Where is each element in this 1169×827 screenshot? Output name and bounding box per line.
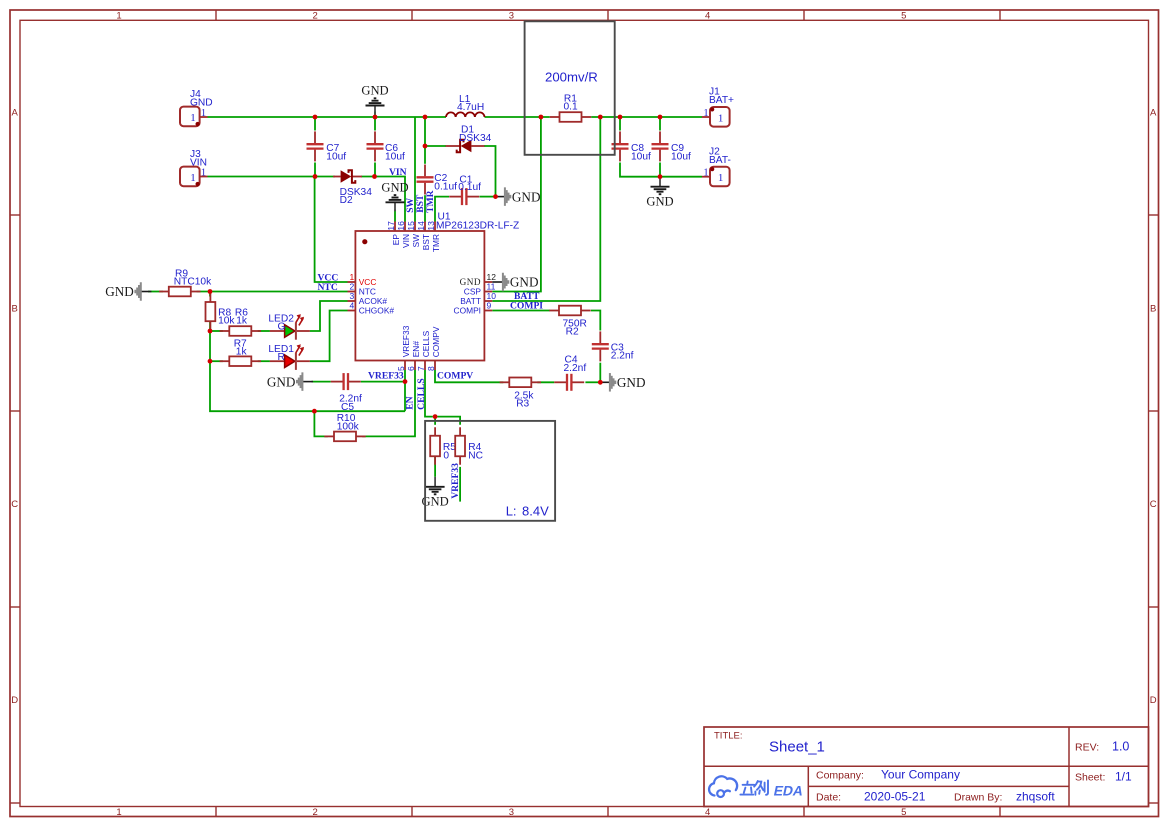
resistor R7 xyxy=(220,338,261,366)
svg-text:ACOK#: ACOK# xyxy=(359,296,388,306)
wire R9 to R8 xyxy=(209,292,211,297)
svg-text:EP: EP xyxy=(391,234,401,246)
svg-text:BATT: BATT xyxy=(460,296,481,306)
pin 11 CSP xyxy=(464,282,496,297)
svg-text:C5: C5 xyxy=(341,402,354,413)
svg-text:GND: GND xyxy=(267,374,296,389)
svg-text:1/1: 1/1 xyxy=(1115,770,1132,784)
svg-text:6: 6 xyxy=(406,366,416,371)
svg-text:4: 4 xyxy=(349,301,354,311)
svg-text:4: 4 xyxy=(705,10,710,21)
resistor R9 xyxy=(159,268,212,296)
svg-text:3: 3 xyxy=(509,807,514,818)
svg-text:CHGOK#: CHGOK# xyxy=(359,306,395,316)
junction rail BATT xyxy=(598,115,603,120)
ground GND at pin12 xyxy=(492,273,538,292)
op-amp U1 MP26123DR-LF-Z xyxy=(355,212,519,361)
svg-text:17: 17 xyxy=(386,221,396,231)
wire R3 to C4 xyxy=(537,381,554,383)
pin 2 NTC xyxy=(348,282,376,297)
wire SW to D1 C2 xyxy=(424,117,426,164)
svg-text:EN#: EN# xyxy=(411,341,421,358)
ground GND at R9 xyxy=(105,282,151,301)
svg-text:2: 2 xyxy=(313,807,318,818)
connector J4 xyxy=(180,107,200,127)
wire C9 bottom xyxy=(659,163,661,177)
ground GND at C1 xyxy=(495,187,541,206)
junction rail CSP xyxy=(539,115,544,120)
svg-text:GND: GND xyxy=(190,98,213,109)
capacitor C7 xyxy=(307,131,347,162)
wire to R7 xyxy=(210,360,223,362)
svg-text:1k: 1k xyxy=(236,316,248,327)
annotation box L 8.4V xyxy=(425,421,555,521)
svg-text:10uf: 10uf xyxy=(631,151,651,162)
wire bottom rail xyxy=(210,361,405,411)
pin 14 BST xyxy=(416,221,431,250)
logo LCEDA xyxy=(709,776,805,798)
svg-text:B: B xyxy=(12,304,18,315)
wire C7 top xyxy=(314,117,316,131)
svg-text:C: C xyxy=(1150,499,1157,510)
svg-text:10k: 10k xyxy=(218,316,235,327)
svg-text:1: 1 xyxy=(190,172,196,184)
wire NTC net xyxy=(197,291,348,293)
svg-text:1: 1 xyxy=(349,272,354,282)
wire BATT net xyxy=(492,117,600,301)
wire CELLS to R4 xyxy=(437,417,460,425)
ground GND below C9 xyxy=(646,177,673,209)
svg-text:B: B xyxy=(1150,304,1156,315)
svg-text:3: 3 xyxy=(349,291,354,301)
svg-text:1: 1 xyxy=(190,112,196,124)
svg-text:VREF33: VREF33 xyxy=(450,463,461,499)
connector J2 xyxy=(710,167,730,187)
svg-text:4: 4 xyxy=(705,807,710,818)
wire C5 to VREF33 xyxy=(361,381,405,383)
svg-text:CELLS: CELLS xyxy=(421,330,431,357)
wire pin17 gnd xyxy=(394,210,396,222)
diode D2 xyxy=(333,170,372,206)
svg-text:BAT+: BAT+ xyxy=(709,95,734,106)
wire gnd stub C6 xyxy=(374,112,376,118)
svg-text:1.0: 1.0 xyxy=(1112,740,1129,754)
svg-text:5: 5 xyxy=(901,10,906,21)
svg-text:VIN: VIN xyxy=(401,234,411,248)
svg-text:14: 14 xyxy=(416,221,426,231)
svg-text:0.1uf: 0.1uf xyxy=(434,181,457,192)
svg-text:COMPI: COMPI xyxy=(454,306,481,316)
svg-text:2.2nf: 2.2nf xyxy=(564,363,587,374)
resistor R3 xyxy=(500,378,541,410)
svg-text:1: 1 xyxy=(718,112,724,124)
junction D1-C2 xyxy=(423,144,428,149)
svg-text:MP26123DR-LF-Z: MP26123DR-LF-Z xyxy=(436,220,519,231)
wire LED2 to pin3 xyxy=(310,301,348,331)
svg-text:4.7uH: 4.7uH xyxy=(457,102,484,113)
svg-text:12: 12 xyxy=(487,272,497,282)
capacitor C4 xyxy=(554,355,586,391)
capacitor C2 xyxy=(417,165,458,195)
svg-text:GND: GND xyxy=(361,84,388,98)
svg-text:R3: R3 xyxy=(516,399,529,410)
inductor L1 xyxy=(446,94,485,117)
svg-text:GND: GND xyxy=(646,194,673,208)
svg-text:5: 5 xyxy=(901,807,906,818)
svg-text:VREF33: VREF33 xyxy=(401,325,411,357)
J4 pin stub xyxy=(200,116,208,118)
junction C4 C3 gnd xyxy=(598,380,603,385)
svg-text:0: 0 xyxy=(443,451,449,462)
svg-text:TMR: TMR xyxy=(425,189,436,212)
svg-text:1: 1 xyxy=(116,10,121,21)
svg-text:8: 8 xyxy=(426,366,436,371)
pin 16 VIN xyxy=(396,221,411,248)
svg-text:Sheet:: Sheet: xyxy=(1075,772,1105,784)
svg-text:16: 16 xyxy=(396,221,406,231)
wire VCC net xyxy=(315,177,348,283)
wire R6 to LED2 xyxy=(258,330,270,332)
capacitor C9 xyxy=(652,131,691,162)
svg-text:GND: GND xyxy=(617,375,646,390)
svg-text:D: D xyxy=(1150,695,1157,706)
junction rail C6 xyxy=(373,115,378,120)
svg-text:3: 3 xyxy=(509,10,514,21)
svg-text:2: 2 xyxy=(313,10,318,21)
wire CSP net xyxy=(492,117,541,292)
pin 1 VCC xyxy=(348,272,377,287)
pin 5 VREF33 xyxy=(396,325,411,371)
svg-text:Your Company: Your Company xyxy=(881,768,960,782)
wire pin5 VREF33 column xyxy=(404,370,406,411)
svg-text:BST: BST xyxy=(421,234,431,250)
junction rail C8 xyxy=(618,115,623,120)
svg-text:2020-05-21: 2020-05-21 xyxy=(864,790,926,804)
capacitor C6 xyxy=(367,131,405,162)
wire BAT- to J2 xyxy=(660,176,702,178)
ground GND at C5 xyxy=(267,372,313,391)
ground GND pin17 EP xyxy=(381,180,408,211)
connector J3 xyxy=(180,167,200,187)
junction rail SW-D1 xyxy=(423,115,428,120)
wire BAT+ rail right xyxy=(591,116,702,118)
connector J1 xyxy=(710,107,730,127)
svg-text:G: G xyxy=(278,322,286,333)
wire gnd to C5 xyxy=(312,381,331,383)
pin 15 SW xyxy=(406,221,421,248)
pin 17 EP xyxy=(386,221,401,245)
pin 13 TMR xyxy=(426,221,441,252)
svg-text:GND: GND xyxy=(105,284,134,299)
resistor R8 xyxy=(206,294,236,330)
svg-text:GND: GND xyxy=(510,275,539,290)
svg-text:VCC: VCC xyxy=(359,277,377,287)
resistor R4 xyxy=(455,427,483,465)
wire J3 VIN xyxy=(208,176,336,178)
junction VREF33 C5 xyxy=(403,379,408,384)
resistor R6 xyxy=(220,307,261,336)
wire C9 top xyxy=(659,117,661,131)
svg-text:L:: L: xyxy=(506,504,517,519)
wire VIN-GND rail left xyxy=(208,116,447,118)
svg-text:2: 2 xyxy=(349,282,354,292)
LED LED2 xyxy=(268,314,309,340)
svg-text:COMPI: COMPI xyxy=(510,301,543,312)
capacitor C8 xyxy=(612,131,651,162)
wire C6 top xyxy=(374,117,376,131)
pin 10 BATT xyxy=(460,291,496,306)
svg-text:A: A xyxy=(12,108,19,119)
svg-text:10uf: 10uf xyxy=(385,151,405,162)
pin 7 CELLS xyxy=(416,330,431,371)
annotation box 200mv/R xyxy=(525,21,615,155)
svg-text:NTC: NTC xyxy=(359,287,376,297)
diode D1 xyxy=(446,124,492,152)
wire to R10 xyxy=(314,411,327,436)
junction rail C9 xyxy=(658,115,663,120)
pin 12 GND xyxy=(460,272,497,287)
pin 6 EN# xyxy=(406,341,421,371)
svg-text:0.1: 0.1 xyxy=(564,102,578,113)
svg-text:9: 9 xyxy=(487,301,492,311)
wire C8 top xyxy=(619,117,621,131)
wire pin7 CELLS xyxy=(425,370,433,417)
J3 pin stub xyxy=(200,176,208,178)
junction CELLS R5 xyxy=(433,414,438,419)
svg-text:1: 1 xyxy=(116,807,121,818)
capacitor C1 xyxy=(449,175,481,206)
svg-text:TITLE:: TITLE: xyxy=(714,731,743,742)
junction R7 xyxy=(208,359,213,364)
wire R2 to C3 xyxy=(591,311,600,331)
junction R8-R6 xyxy=(208,329,213,334)
wire C8 bottom xyxy=(620,163,660,177)
resistor R2 xyxy=(549,306,590,338)
wire R4 VREF33 stub xyxy=(459,467,461,502)
svg-text:2.2nf: 2.2nf xyxy=(611,351,634,362)
ground GND above C6 xyxy=(361,84,388,115)
wire D1 left xyxy=(425,145,446,147)
svg-text:zhqsoft: zhqsoft xyxy=(1016,790,1055,804)
svg-text:Drawn By:: Drawn By: xyxy=(954,792,1002,804)
svg-text:SW: SW xyxy=(411,234,421,248)
svg-text:GND: GND xyxy=(460,277,481,287)
junction rail C7 xyxy=(313,115,318,120)
svg-text:EDA: EDA xyxy=(772,782,804,798)
wire C6 bottom xyxy=(374,163,376,177)
wire gnd to R9 xyxy=(148,291,163,293)
wire to R6 xyxy=(210,330,223,332)
svg-text:Company:: Company: xyxy=(816,770,864,782)
svg-text:EN: EN xyxy=(405,396,416,409)
junction C1 gnd xyxy=(493,194,498,199)
wire R8 bottom xyxy=(209,321,211,331)
wire LED1 to pin4 xyxy=(310,311,348,362)
svg-text:C: C xyxy=(11,499,18,510)
wire R8 R7 column xyxy=(209,331,211,361)
wire R7 to LED1 xyxy=(258,360,270,362)
svg-text:COMPV: COMPV xyxy=(437,371,473,382)
svg-text:TMR: TMR xyxy=(431,234,441,252)
junction bottom rail R10 xyxy=(312,409,317,414)
svg-text:13: 13 xyxy=(426,221,436,231)
svg-text:D: D xyxy=(11,695,18,706)
wire R10 to pin6 EN xyxy=(362,370,415,436)
svg-text:R: R xyxy=(278,352,285,363)
wire VIN to pin16 xyxy=(361,177,405,222)
capacitor C3 xyxy=(592,331,634,361)
svg-text:CSP: CSP xyxy=(464,287,482,297)
svg-text:0.1uf: 0.1uf xyxy=(458,182,481,193)
wire rail mid xyxy=(485,116,550,118)
svg-text:DSK34: DSK34 xyxy=(459,133,492,144)
svg-text:REV:: REV: xyxy=(1075,742,1099,754)
wire C3 to gnd xyxy=(599,363,601,383)
svg-text:1k: 1k xyxy=(236,347,248,358)
svg-text:GND: GND xyxy=(381,180,408,194)
wire C7 bottom xyxy=(314,163,316,177)
svg-text:BAT-: BAT- xyxy=(709,155,731,166)
svg-text:A: A xyxy=(1150,108,1157,119)
resistor R10 xyxy=(324,413,365,441)
svg-text:10: 10 xyxy=(487,291,497,301)
svg-text:COMPV: COMPV xyxy=(431,326,441,357)
svg-text:VREF33: VREF33 xyxy=(368,371,404,382)
pin 8 COMPV xyxy=(426,326,441,371)
LED LED1 xyxy=(268,344,309,370)
svg-text:15: 15 xyxy=(406,221,416,231)
wire SW net xyxy=(414,117,416,222)
wire C4 to gnd xyxy=(585,381,600,383)
svg-text:NTC: NTC xyxy=(318,282,338,293)
svg-text:NTC10k: NTC10k xyxy=(174,277,212,288)
J2 pin stub xyxy=(702,176,710,178)
junction R9-R8 xyxy=(208,289,213,294)
junction VIN C7-D2 xyxy=(313,174,318,179)
svg-text:100k: 100k xyxy=(337,422,360,433)
ground GND at C4 xyxy=(599,373,645,392)
capacitor C5 xyxy=(331,373,362,413)
wire pin13 TMR to C1 xyxy=(435,197,449,222)
svg-text:GND: GND xyxy=(512,189,541,204)
ground GND below R5 xyxy=(421,477,448,509)
svg-text:CELLS: CELLS xyxy=(416,378,427,409)
junction C9 J2 xyxy=(658,174,663,179)
wire COMPV net xyxy=(435,370,503,382)
svg-text:R2: R2 xyxy=(566,327,579,338)
pin 3 ACOK# xyxy=(348,291,388,306)
svg-text:Sheet_1: Sheet_1 xyxy=(769,739,825,756)
svg-text:1: 1 xyxy=(718,172,724,184)
J1 pin stub xyxy=(702,116,710,118)
title block xyxy=(704,727,1149,807)
svg-text:VIN: VIN xyxy=(389,167,407,178)
svg-text:200mv/R: 200mv/R xyxy=(545,70,598,85)
svg-text:10uf: 10uf xyxy=(326,151,346,162)
resistor R5 xyxy=(430,427,456,465)
pin 9 COMPI xyxy=(454,301,493,316)
wire D1 to C1 gnd xyxy=(484,146,496,197)
wire R5 to gnd xyxy=(434,456,436,477)
svg-text:NC: NC xyxy=(468,451,483,462)
resistor R1 xyxy=(550,94,591,122)
svg-text:11: 11 xyxy=(487,282,496,292)
svg-text:10uf: 10uf xyxy=(671,151,691,162)
wire C2 to pin14 xyxy=(424,195,426,221)
wire COMPI to R2 xyxy=(492,310,550,312)
svg-text:Date:: Date: xyxy=(816,792,841,804)
wire C1 right xyxy=(480,196,496,198)
svg-text:D2: D2 xyxy=(340,195,353,206)
wire to R5 xyxy=(434,417,436,425)
svg-text:8.4V: 8.4V xyxy=(522,504,549,519)
pin 4 CHGOK# xyxy=(348,301,395,316)
junction VIN D2-C6 xyxy=(372,174,377,179)
svg-text:7: 7 xyxy=(416,366,426,371)
